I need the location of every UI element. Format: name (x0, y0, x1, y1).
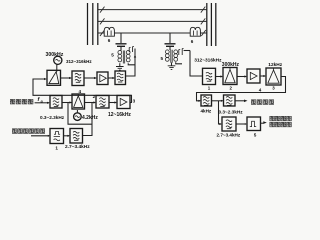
pulse shaper P1 (247, 117, 261, 131)
wire F1 to A1 (84, 77, 96, 79)
coupling filter transformer right (165, 50, 177, 63)
mixer X2 (266, 68, 281, 85)
svg-text:6: 6 (191, 39, 194, 44)
wire G1 to X1 (216, 76, 223, 78)
svg-text:a: a (41, 99, 43, 103)
svg-text:12~16kHz: 12~16kHz (108, 112, 131, 118)
filter G1 (203, 68, 216, 84)
wire cap to transformer left (120, 47, 122, 51)
insulator slash top-right (201, 7, 206, 13)
arrowhead into F3 (47, 102, 50, 104)
arrester left (129, 47, 134, 53)
arrowhead into F4 (93, 101, 96, 103)
svg-text:2.7~3.4kHz: 2.7~3.4kHz (217, 133, 241, 138)
svg-text:1: 1 (55, 145, 58, 150)
wire branch junction down (68, 103, 92, 125)
svg-text:6: 6 (108, 38, 111, 43)
svg-text:312~316kHz: 312~316kHz (66, 59, 92, 64)
arrowhead into F2 (112, 77, 115, 79)
svg-text:4kHz: 4kHz (201, 109, 212, 114)
ground left (116, 67, 124, 71)
wire tap left (120, 33, 122, 43)
arrowhead into F5 (67, 135, 70, 137)
modulator M1 (47, 70, 61, 85)
arrowhead into X2 (263, 75, 266, 77)
svg-text:0.3~2.3kHz: 0.3~2.3kHz (219, 109, 244, 114)
text analog telephone (10, 99, 33, 104)
insulator slash mid-right (201, 18, 206, 24)
wire winding to ground left (119, 63, 121, 66)
insulator slash top-left (100, 7, 105, 13)
text telecontrol digital info (12, 129, 44, 134)
svg-text:12kHz: 12kHz (268, 62, 282, 68)
wire X2 down to row2 right (197, 77, 286, 101)
svg-text:4: 4 (259, 88, 262, 93)
svg-text:5: 5 (111, 53, 114, 58)
arrowhead into B1 (48, 135, 50, 137)
insulator slash bot-left (100, 30, 105, 36)
arrowhead telephone rx (244, 100, 248, 103)
filter H1 (201, 95, 212, 106)
svg-text:0.3~2.3kHz: 0.3~2.3kHz (40, 115, 65, 120)
right busbar lines (207, 3, 216, 46)
svg-text:5: 5 (254, 132, 257, 137)
arrowhead into A3 (244, 75, 247, 77)
oscillator O1 300kHz (54, 56, 62, 71)
wire F3 to M2 (62, 102, 72, 104)
wire coupling down right (190, 51, 203, 77)
arrowhead into J1 (219, 123, 222, 125)
phase wire bottom (98, 32, 207, 34)
wire F5 up to row2 (83, 103, 93, 136)
line trap left (104, 27, 114, 36)
arrowhead into A1 (94, 77, 97, 79)
arrowhead into F1 (69, 77, 72, 79)
svg-text:3: 3 (133, 99, 136, 104)
filter H2 (224, 95, 236, 106)
wire tap right (169, 33, 171, 43)
wire cap to transformer right (169, 47, 171, 50)
filter F5 (70, 129, 83, 144)
svg-text:5: 5 (161, 56, 164, 61)
wire into F3 (35, 102, 49, 104)
svg-text:3: 3 (272, 86, 275, 91)
wire P1 out (261, 122, 264, 124)
wire junction down to J1 (219, 101, 222, 124)
svg-text:4.2kHz: 4.2kHz (82, 115, 98, 121)
phase wire top (98, 9, 207, 11)
svg-text:300kHz: 300kHz (46, 52, 64, 58)
svg-text:1: 1 (208, 86, 211, 91)
oscillator O2 4.2kHz (74, 110, 82, 120)
wire F4 to A2 (109, 102, 116, 104)
svg-text:2: 2 (230, 86, 233, 91)
wire H2 out (235, 100, 244, 102)
arrow up on coupling wire left (134, 55, 136, 58)
arrowhead telecontrol rx (263, 121, 267, 124)
mixer X1 (223, 68, 237, 85)
wire into B1 (31, 135, 49, 137)
arrowhead into M1 (44, 78, 47, 80)
filter F3 (50, 96, 62, 109)
text telecontrol digital line1 (270, 116, 291, 121)
left busbar lines (88, 3, 98, 45)
wire A3 to X2 (260, 75, 265, 77)
svg-text:2: 2 (93, 94, 96, 99)
amplifier A1 (97, 72, 108, 85)
wire coupling down left (126, 49, 136, 77)
modulator M2 (72, 94, 85, 109)
coupling capacitor left (116, 44, 127, 47)
wire X1 to A3 (238, 76, 247, 78)
arrowhead into P1 (244, 123, 247, 125)
wire B1 to F5 (64, 135, 70, 137)
amplifier A3 (247, 69, 260, 83)
arrowhead into M2 (69, 101, 72, 103)
svg-text:312~316kHz: 312~316kHz (194, 57, 222, 63)
wire M1 to F1 (61, 77, 72, 79)
phase wire middle (98, 20, 207, 22)
filter F2 (115, 71, 126, 85)
wire H1 to H2 (212, 100, 223, 102)
arrowhead into X1 (220, 75, 223, 77)
coupling filter transformer left (118, 51, 130, 64)
text info receive line2 (270, 122, 291, 127)
arrester right (179, 49, 184, 56)
svg-text:2.7~3.4kHz: 2.7~3.4kHz (65, 144, 90, 150)
arrowhead into A2 (114, 101, 117, 103)
filter F4 (96, 96, 109, 109)
wire winding hook left (128, 63, 135, 65)
ground right (168, 66, 176, 70)
filter J1 (222, 117, 236, 131)
amplifier A2 (117, 96, 130, 109)
text telephone receive (251, 100, 273, 105)
FSK modulator B1 (50, 129, 64, 144)
wire winding to ground right (171, 63, 173, 66)
insulator slash mid-left (100, 18, 105, 24)
arrowhead into H1 (198, 100, 201, 102)
arrowhead into H2 (221, 100, 224, 102)
wire arrester to down wire right (184, 50, 190, 52)
line trap right (190, 27, 200, 36)
wire winding hook right (176, 62, 182, 64)
coupling capacitor right (165, 44, 176, 47)
filter F1 (72, 71, 84, 86)
wire feedback row2 to modulator M1 (33, 79, 132, 103)
insulator slash bot-right (201, 30, 206, 36)
wire J1 to P1 (236, 123, 244, 125)
wire A1 to F2 (108, 77, 114, 79)
wire M2 to F4 (85, 102, 96, 104)
